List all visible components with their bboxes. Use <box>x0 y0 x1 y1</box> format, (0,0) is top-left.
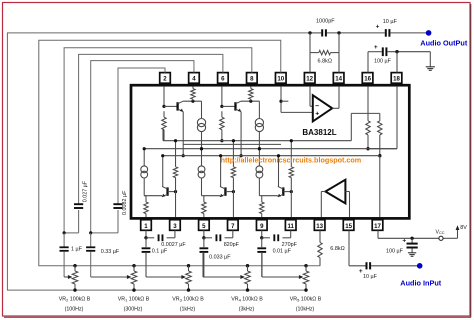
wire pin6 loop <box>79 54 223 204</box>
svg-text:0.01 µF: 0.01 µF <box>273 249 292 255</box>
svg-text:(3kHz): (3kHz) <box>239 306 255 312</box>
wire 100uF to ground <box>387 52 430 67</box>
wire op-amp2 out to pin13 <box>321 192 325 218</box>
wire pin2 loop <box>118 68 165 204</box>
svg-text:(100Hz): (100Hz) <box>65 306 84 312</box>
node pin18 top <box>395 50 398 73</box>
wire pin17 internal <box>379 156 381 217</box>
wiper VR4 <box>203 275 245 279</box>
resistor pin16 internal <box>366 87 370 151</box>
svg-text:−: − <box>315 103 319 110</box>
pin 5 <box>199 220 210 231</box>
svg-text:15: 15 <box>345 223 352 230</box>
svg-text:+: + <box>402 238 406 245</box>
node Audio Input <box>371 263 442 288</box>
IC U1 BA3812L body <box>131 85 409 218</box>
capacitor 270pF + 0.01uF (band5) <box>257 230 297 277</box>
gyrator cell Q1 Q1b (pins 2/4) <box>162 87 206 167</box>
wire wiper feed band3 <box>145 252 147 277</box>
svg-text:8V: 8V <box>460 225 467 231</box>
capacitor 100uF bottom <box>386 238 418 255</box>
pin 7 <box>228 220 239 231</box>
node Audio Output <box>420 30 468 47</box>
pin 3 <box>170 220 181 231</box>
op-amp U1b <box>325 180 345 204</box>
svg-text:9: 9 <box>260 223 264 230</box>
resistor pin17 internal <box>351 113 382 157</box>
wire pin12 internal <box>310 87 312 107</box>
svg-text:(10kHz): (10kHz) <box>296 306 315 312</box>
pin 16 <box>362 73 373 84</box>
label VR1 <box>118 296 150 312</box>
svg-text:11: 11 <box>287 223 294 230</box>
svg-text:10 µF: 10 µF <box>383 19 398 25</box>
svg-text:Audio OutPut: Audio OutPut <box>420 38 468 47</box>
svg-text:17: 17 <box>374 223 381 230</box>
capacitor 0.0082uF <box>113 190 127 233</box>
svg-text:+: + <box>315 110 319 117</box>
wiper VR3 <box>146 275 186 279</box>
svg-text:270pF: 270pF <box>282 242 298 248</box>
pin 11 <box>285 220 296 231</box>
wire wiper feed band5 <box>261 252 263 277</box>
wire wiper feed band4 <box>202 252 204 277</box>
label VR5 <box>290 296 322 312</box>
wire 8V supply <box>456 225 468 238</box>
ground top right <box>426 67 435 71</box>
svg-text:VR5 100kΩ B: VR5 100kΩ B <box>290 296 322 302</box>
svg-text:6.8kΩ: 6.8kΩ <box>330 246 345 252</box>
pin 14 <box>333 73 344 84</box>
capacitor C 1uF <box>60 233 83 277</box>
label VR4 <box>231 296 263 312</box>
capacitor 10uF input <box>359 262 378 280</box>
label VR2 <box>59 296 91 312</box>
wire pin18 internal <box>368 87 397 149</box>
pin 17 <box>372 220 383 231</box>
pin 8 <box>247 73 258 84</box>
svg-text:+: + <box>374 44 378 51</box>
terminal Vcc <box>436 229 445 240</box>
pin 6 <box>218 73 229 84</box>
potentiometer VR5 (10kHz) <box>303 264 309 292</box>
svg-text:10 µF: 10 µF <box>363 274 378 280</box>
capacitor 820pF + 0.033uF (band4) <box>199 230 239 277</box>
svg-text:16: 16 <box>364 76 371 83</box>
capacitor 1000pF <box>316 19 335 37</box>
svg-text:VR4 100kΩ B: VR4 100kΩ B <box>231 296 263 302</box>
capacitor 0.0027uF + 0.1uF (band3) <box>142 230 187 277</box>
wire band2 junction <box>89 231 118 234</box>
svg-text:0.0082 µF: 0.0082 µF <box>122 190 128 215</box>
svg-text:Audio InPut: Audio InPut <box>400 279 442 288</box>
potentiometer VR2 (100Hz) <box>72 264 78 292</box>
svg-text:VR2 100kΩ B: VR2 100kΩ B <box>59 296 91 302</box>
wire pin6 resistor node dot <box>220 139 223 142</box>
wire pin17 to Vcc <box>378 230 458 238</box>
bus B1 <box>163 130 351 141</box>
wiper VR1 <box>91 275 132 279</box>
pin 12 <box>304 73 315 84</box>
capacitor C 0.33uF <box>86 233 120 277</box>
wire pin15 to input <box>349 230 366 265</box>
wire output feedback loop <box>7 33 309 290</box>
gyrator cell Q2 Q2b (pins 6/8) <box>220 87 264 167</box>
gyrator cell Q4 (pins 5/7) <box>198 139 236 217</box>
label VR3 <box>172 296 204 312</box>
watermark <box>221 156 362 165</box>
svg-text:12: 12 <box>306 76 313 83</box>
wire output line segment <box>310 32 429 34</box>
svg-text:0.033 µF: 0.033 µF <box>209 254 231 260</box>
svg-text:BA3812L: BA3812L <box>302 128 336 137</box>
svg-text:14: 14 <box>335 76 342 83</box>
ground bottom right <box>408 253 416 256</box>
potentiometer VR4 (3kHz) <box>245 264 251 292</box>
resistor 6.8kOhm feedback <box>310 50 339 64</box>
potentiometer VR3 (1kHz) <box>186 264 192 292</box>
svg-text:1000pF: 1000pF <box>316 19 335 25</box>
svg-text:+: + <box>376 23 380 30</box>
svg-text:http://allelectronicscircuits.: http://allelectronicscircuits.blogspot.c… <box>221 156 362 165</box>
pin 4 <box>189 73 200 84</box>
svg-text:6.8kΩ: 6.8kΩ <box>318 58 333 64</box>
wiper VR2 <box>64 275 72 279</box>
pin 10 <box>275 73 286 84</box>
svg-text:100 µF: 100 µF <box>374 59 392 65</box>
IC label BA3812L <box>302 128 336 137</box>
wire pin10 internal <box>279 87 312 113</box>
wire band1 junction <box>63 231 79 234</box>
bus B3 <box>163 155 380 157</box>
svg-text:(300Hz): (300Hz) <box>124 306 143 312</box>
svg-text:0.33 µF: 0.33 µF <box>101 249 120 255</box>
svg-text:820pF: 820pF <box>224 242 240 248</box>
svg-text:0.027 µF: 0.027 µF <box>82 180 88 202</box>
wire op-amp2 in from pin15 <box>345 192 349 218</box>
node pin12 top <box>308 31 311 72</box>
capacitor 10uF output <box>376 19 398 37</box>
svg-text:10: 10 <box>277 76 284 83</box>
bus B2 <box>144 148 397 150</box>
resistor 6.8kOhm input <box>318 230 345 265</box>
wiper VR5 <box>262 275 303 279</box>
svg-text:18: 18 <box>393 76 400 83</box>
potentiometer VR1 (300Hz) <box>131 264 137 292</box>
pin 18 <box>391 73 402 84</box>
bus B4 <box>183 143 281 145</box>
pin 15 <box>343 220 354 231</box>
svg-text:0.1 µF: 0.1 µF <box>152 249 168 255</box>
pin 1 <box>141 220 152 231</box>
wire op-amp1 out to pin14 <box>332 87 339 109</box>
pin 9 <box>256 220 267 231</box>
svg-text:13: 13 <box>316 223 323 230</box>
svg-text:VR3 100kΩ B: VR3 100kΩ B <box>172 296 204 302</box>
node pin14 top <box>337 31 340 72</box>
svg-text:(1kHz): (1kHz) <box>180 306 196 312</box>
svg-text:1 µF: 1 µF <box>71 247 83 253</box>
capacitor 100uF top <box>374 44 392 65</box>
pin 2 <box>160 73 171 84</box>
wire pin4 loop <box>91 61 194 233</box>
pin 13 <box>314 220 325 231</box>
wire pin8 loop <box>64 48 252 233</box>
op-amp U1a <box>313 95 332 121</box>
capacitor 0.027uF <box>74 180 88 233</box>
svg-text:100 µF: 100 µF <box>386 248 404 254</box>
svg-text:VR1 100kΩ B: VR1 100kΩ B <box>118 296 150 302</box>
wire pin10 loop to pot bus <box>39 40 321 266</box>
wire pin16 up <box>368 52 382 73</box>
svg-text:0.0027 µF: 0.0027 µF <box>161 242 186 248</box>
gyrator cell Q5 (pins 9/11) <box>256 139 294 217</box>
svg-text:VCC: VCC <box>436 229 445 235</box>
gyrator cell Q3 (pins 1/3) <box>141 139 178 217</box>
node 100uF input dot <box>410 237 413 240</box>
